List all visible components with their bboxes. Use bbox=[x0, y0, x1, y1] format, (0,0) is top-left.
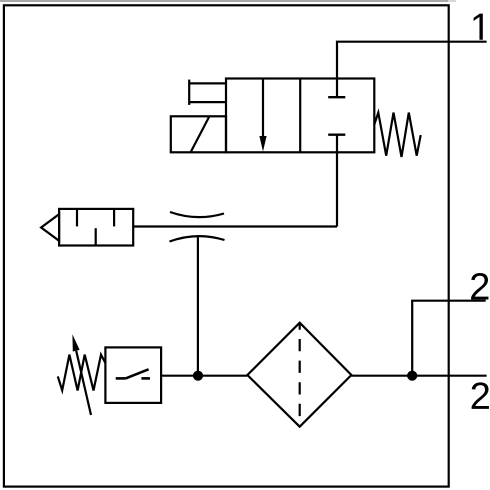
wire silencer to valve bbox=[133, 225, 337, 227]
filter F1 diamond bbox=[247, 323, 351, 427]
silencer U1 ticks bbox=[76, 210, 78, 227]
top gray strip bbox=[0, 0, 448, 2]
wire valve bottom to silencer line bbox=[336, 135, 338, 227]
valve V1 manual override bbox=[188, 80, 190, 105]
valve V1 solenoid coil bbox=[171, 116, 226, 152]
valve V1 body bbox=[226, 79, 374, 153]
valve V1 return spring bbox=[374, 113, 420, 157]
wire switch to junction bbox=[161, 375, 247, 377]
wire branch to upper port 2 bbox=[412, 301, 486, 376]
valve V1 blocked port bottom bbox=[328, 133, 345, 135]
node label 2 upper bbox=[471, 273, 488, 300]
wire coupling to junction bbox=[197, 236, 199, 376]
node label 1 bbox=[474, 14, 483, 40]
filter F1 element dashed bbox=[299, 323, 301, 427]
wire port 1 bbox=[337, 42, 487, 79]
pressure switch S1 adjustment arrow bbox=[76, 351, 91, 415]
pressure switch S1 contact bbox=[116, 377, 126, 380]
junction node B dot bbox=[407, 371, 417, 381]
coupling arc lower bbox=[170, 236, 225, 241]
valve V1 flow arrow bbox=[262, 79, 264, 140]
wire filter to port 2 bbox=[351, 375, 486, 377]
pressure switch S1 box bbox=[105, 347, 161, 403]
top gray strip light segment bbox=[448, 0, 456, 2]
coupling arc upper bbox=[170, 212, 224, 217]
valve V1 position divider bbox=[299, 79, 301, 153]
node label 2 lower bbox=[472, 382, 489, 409]
junction node A dot bbox=[193, 371, 203, 381]
pressure switch S1 adjustable spring bbox=[58, 355, 106, 391]
silencer U1 body bbox=[59, 209, 133, 246]
silencer U1 triangle bbox=[41, 214, 59, 241]
valve V1 blocked port top bbox=[336, 79, 338, 97]
